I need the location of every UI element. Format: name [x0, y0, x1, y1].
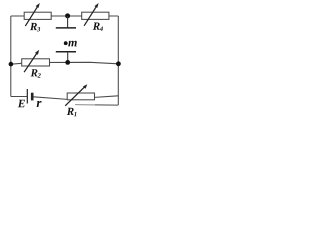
wire R1 to right border [95, 96, 119, 98]
wire bottom left [11, 96, 27, 98]
node dot middle junction [65, 60, 70, 65]
wire right border [117, 16, 119, 105]
battery E r [18, 89, 42, 107]
resistor R2 [22, 50, 50, 78]
node dot top (junction between R3 and R4) [65, 13, 70, 18]
wire top [11, 15, 119, 17]
wire bottom ghost faint [75, 104, 95, 106]
resistor R1 [65, 84, 94, 116]
wire left border [10, 16, 12, 97]
resistor R3 [24, 3, 51, 31]
wire bottom ghost [95, 104, 118, 106]
wire battery to R1 [33, 97, 67, 100]
capacitor bottom plate with stub [56, 52, 76, 63]
capacitor top plate with stub [56, 16, 76, 28]
node dot left border [9, 62, 14, 67]
node m [64, 41, 77, 47]
resistor R4 [82, 3, 109, 31]
wire middle [11, 62, 119, 64]
node dot right border [116, 61, 121, 66]
